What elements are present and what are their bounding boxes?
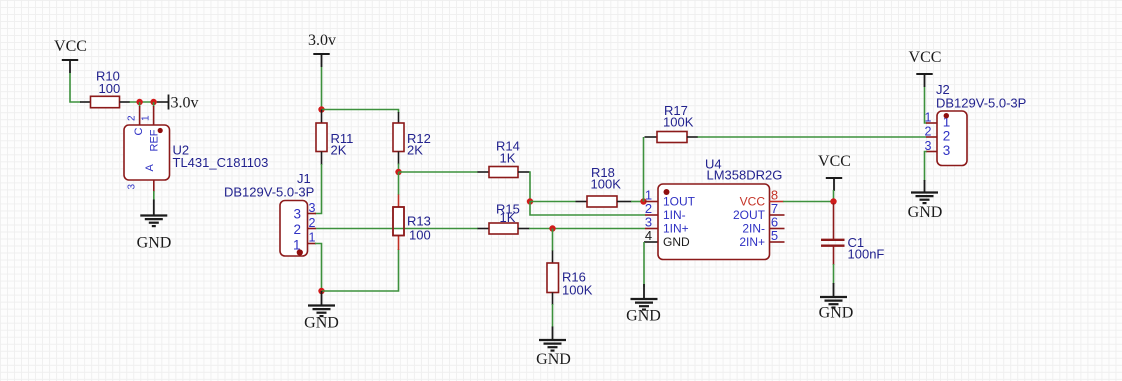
svg-text:GND: GND <box>663 235 690 249</box>
net label 3.0v (at U2) <box>169 95 199 112</box>
junction dot at U2 pin REF <box>150 99 156 105</box>
resistor R11 <box>316 110 353 166</box>
wire J1 pin 1 to GND node <box>315 244 322 292</box>
svg-text:2: 2 <box>943 129 951 144</box>
wire 3.0v rail to R12 <box>322 110 399 114</box>
junction dot at U2 pin C <box>136 99 142 105</box>
resistor R12 <box>393 112 431 165</box>
svg-text:VCC: VCC <box>909 49 942 66</box>
wire 3.0v flag down <box>321 67 323 110</box>
svg-text:3: 3 <box>943 143 951 158</box>
svg-text:2: 2 <box>127 115 138 121</box>
resistor R18 <box>576 165 632 207</box>
ground GND (U4) <box>626 284 661 325</box>
power flag VCC (left) <box>54 38 87 73</box>
svg-text:DB129V-5.0-3P: DB129V-5.0-3P <box>936 96 1026 111</box>
svg-text:3: 3 <box>293 207 301 222</box>
svg-text:VCC: VCC <box>818 153 851 170</box>
wire node to U4 pin 2 <box>530 202 645 216</box>
svg-text:VCC: VCC <box>54 38 87 55</box>
wire U4 pin 4 to GND <box>643 242 645 287</box>
svg-text:A: A <box>144 164 156 172</box>
ground GND (R16) <box>536 327 571 369</box>
svg-text:1: 1 <box>141 115 152 121</box>
junction node 3.0v rail <box>318 106 324 112</box>
wire R15 to U4 pin 3 <box>529 228 645 230</box>
wire R18 to U4 pin 1 node <box>631 201 644 203</box>
wire VCC to J2 pin 1 <box>925 87 927 123</box>
resistor R13 body <box>393 207 404 236</box>
resistor R16 <box>547 251 593 306</box>
wire U2 pin 3 to GND <box>153 191 155 200</box>
op-amp U2 TL431_C181103 <box>124 106 268 192</box>
svg-text:100: 100 <box>99 81 121 96</box>
svg-text:2: 2 <box>925 125 932 139</box>
svg-text:GND: GND <box>819 305 854 322</box>
junction node R15/R16 <box>549 225 555 231</box>
svg-text:1OUT: 1OUT <box>663 195 696 209</box>
svg-text:1IN-: 1IN- <box>663 208 686 222</box>
wire J2 pin 3 to GND <box>925 152 927 182</box>
svg-text:2K: 2K <box>331 143 347 158</box>
svg-text:GND: GND <box>908 204 943 221</box>
wire R17 to node <box>643 137 645 202</box>
wire R16 to GND <box>552 304 554 327</box>
ground GND (C1) <box>819 283 854 322</box>
svg-text:3: 3 <box>309 201 316 215</box>
wire VCC to R10 <box>70 73 81 102</box>
svg-text:2: 2 <box>293 222 301 237</box>
svg-text:VCC: VCC <box>740 195 766 209</box>
svg-text:GND: GND <box>304 315 339 332</box>
junction node R17/R18/U4.1 <box>640 198 646 204</box>
svg-text:2IN+: 2IN+ <box>739 235 765 249</box>
svg-text:R13: R13 <box>407 214 431 229</box>
ground GND (J1) <box>304 291 339 332</box>
junction node GND (J1) <box>318 288 324 294</box>
resistor R14 <box>478 139 530 178</box>
wire U2 pin 1 drop <box>153 102 155 107</box>
svg-text:2: 2 <box>309 216 316 230</box>
resistor R15 <box>478 202 530 235</box>
wire R14 to node <box>529 172 530 202</box>
power flag 3.0v (top) <box>308 32 336 67</box>
svg-text:LM358DR2G: LM358DR2G <box>707 168 783 183</box>
power flag VCC (C1) <box>818 153 851 191</box>
svg-text:3.0v: 3.0v <box>171 95 199 112</box>
svg-text:TL431_C181103: TL431_C181103 <box>173 155 269 170</box>
wire C1 to GND <box>833 264 835 284</box>
connector J2 DB129V-5.0-3P <box>925 82 1027 166</box>
op-amp U4 LM358DR2G <box>644 157 785 260</box>
resistor R13 <box>399 195 431 251</box>
resistor R10 <box>80 69 130 108</box>
svg-text:1IN+: 1IN+ <box>663 222 689 236</box>
svg-text:2OUT: 2OUT <box>733 208 766 222</box>
wire node to R16 <box>552 229 554 252</box>
svg-text:1: 1 <box>925 111 932 125</box>
capacitor C1 100nF <box>821 203 884 265</box>
svg-text:1: 1 <box>309 231 316 245</box>
svg-text:GND: GND <box>137 235 172 252</box>
svg-text:100K: 100K <box>591 177 622 192</box>
junction node R12/R13/R14 <box>395 169 401 175</box>
wire R12 to node <box>398 164 400 173</box>
svg-text:1K: 1K <box>500 151 516 166</box>
wire stub to 3.0v tick <box>157 101 169 103</box>
svg-text:C: C <box>133 128 145 136</box>
resistor R13 outline <box>393 207 404 236</box>
junction node VCC/C1 <box>830 198 836 204</box>
svg-text:GND: GND <box>626 308 661 325</box>
svg-text:DB129V-5.0-3P: DB129V-5.0-3P <box>224 185 314 200</box>
ground GND (J2) <box>908 180 943 221</box>
wire R11 to J1 pin 3 <box>315 164 322 214</box>
junction node R14/R18 <box>527 198 533 204</box>
wire U4 pin 8 to VCC node <box>783 201 834 203</box>
power flag VCC (J2) <box>909 49 942 87</box>
wire U2 pin 2 drop <box>139 102 141 107</box>
svg-text:1K: 1K <box>500 210 516 225</box>
wire VCC flag down <box>833 190 835 202</box>
svg-text:100K: 100K <box>663 115 694 130</box>
wire GND node to R13 bottom <box>322 249 399 291</box>
svg-text:3.0v: 3.0v <box>308 32 336 49</box>
svg-text:100K: 100K <box>562 283 593 298</box>
resistor R17 <box>645 103 699 143</box>
svg-text:2IN-: 2IN- <box>742 222 765 236</box>
svg-text:3: 3 <box>127 184 138 190</box>
wire R17 to J2 pin 2 <box>698 136 927 138</box>
wire node to R14 <box>399 171 479 173</box>
ground GND (U2) <box>137 200 172 252</box>
wire node to R18 <box>530 201 576 203</box>
svg-text:100nF: 100nF <box>848 247 885 262</box>
svg-text:2K: 2K <box>407 143 423 158</box>
connector J1 DB129V-5.0-3P <box>224 171 316 256</box>
svg-text:5: 5 <box>771 228 778 243</box>
svg-text:100: 100 <box>409 228 431 243</box>
wire node to R13 <box>398 172 400 195</box>
svg-text:GND: GND <box>536 351 571 368</box>
wire R10 to net 3.0v <box>130 101 158 103</box>
wire J1 pin2 to R15 <box>316 228 478 230</box>
svg-text:4: 4 <box>645 228 652 243</box>
